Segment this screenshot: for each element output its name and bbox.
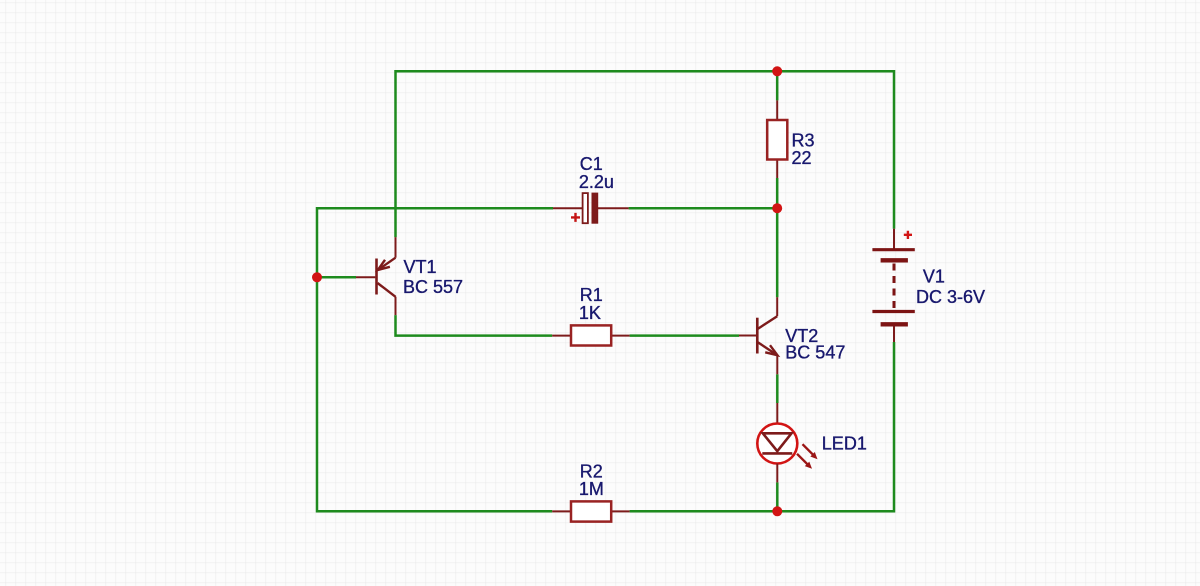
transistor VT2 (NPN BC547) — [739, 297, 845, 374]
svg-text:1M: 1M — [579, 479, 604, 499]
svg-text:LED1: LED1 — [822, 434, 867, 454]
capacitor C1 — [553, 154, 629, 223]
svg-text:2.2u: 2.2u — [579, 172, 614, 192]
svg-text:V1: V1 — [923, 267, 945, 287]
wire R3 bottom — [776, 178, 779, 208]
wire top rail and left upper vertical and right rail top — [396, 71, 895, 237]
node junction dots — [772, 66, 782, 76]
wire C1 row right — [629, 207, 778, 210]
wire LED bottom — [776, 482, 779, 511]
resistor R1 — [552, 285, 629, 346]
svg-text:VT1: VT1 — [404, 257, 437, 277]
wire VT1 emitter to R1 row — [396, 315, 553, 336]
wire bottom rail right, right rail lower — [630, 342, 894, 511]
wire bottom rail left, left rail, C1 row left — [317, 208, 553, 511]
battery V1 — [872, 229, 985, 342]
svg-text:22: 22 — [792, 148, 812, 168]
svg-text:R1: R1 — [580, 285, 603, 305]
svg-text:C1: C1 — [580, 154, 603, 174]
svg-text:1K: 1K — [579, 303, 601, 323]
wire R1 to VT2 base — [630, 334, 739, 337]
wire R3 top — [776, 71, 779, 100]
resistor R2 — [552, 461, 629, 521]
svg-text:BC 557: BC 557 — [403, 277, 463, 297]
transistor VT1 (PNP BC557) — [356, 237, 463, 315]
LED1 — [757, 403, 867, 482]
wire VT2 emitter to LED — [776, 374, 779, 403]
wire VT1 base — [317, 276, 356, 279]
svg-text:DC 3-6V: DC 3-6V — [916, 287, 985, 307]
wire VT2 collector — [776, 208, 779, 297]
resistor R3 — [767, 100, 814, 178]
svg-text:BC 547: BC 547 — [785, 343, 845, 363]
